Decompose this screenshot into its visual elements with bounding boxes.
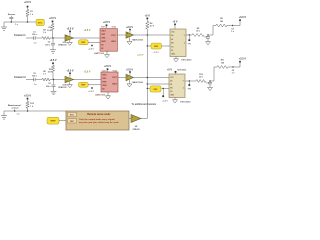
wire box3 to U4	[162, 45, 171, 47]
svg-text:100: 100	[221, 62, 224, 64]
svg-text:Z: Z	[184, 43, 185, 45]
wire U7 out	[134, 77, 170, 79]
wire rise ch2	[210, 67, 217, 81]
wire to opamp	[50, 37, 66, 39]
svg-text:+2.5 V: +2.5 V	[49, 59, 56, 62]
power +2.5V small pad ch1	[91, 45, 93, 47]
junction out pad ch2	[189, 80, 190, 81]
svg-text:VDD1: VDD1	[101, 26, 106, 28]
svg-text:100: 100	[220, 21, 223, 23]
capacitor C1 series	[33, 36, 35, 40]
svg-text:VDD1: VDD1	[101, 31, 106, 33]
svg-text:+3.3 V: +3.3 V	[239, 16, 247, 19]
svg-text:S0: S0	[170, 91, 172, 93]
svg-text:sensor: sensor	[11, 108, 18, 110]
svg-text:+3.3 V: +3.3 V	[239, 57, 247, 60]
wire U2 to U3	[117, 34, 126, 36]
svg-text:S0: S0	[171, 46, 173, 48]
svg-text:VREF: VREF	[50, 121, 56, 123]
svg-text:GND1: GND1	[102, 85, 107, 87]
svg-text:+2.5 V: +2.5 V	[104, 65, 111, 68]
svg-text:OPA2333: OPA2333	[58, 43, 66, 46]
svg-text:A1: A1	[170, 83, 172, 86]
wire refnet to U6	[88, 84, 101, 86]
isolation amplifier U2 AMC1100	[100, 29, 117, 52]
junction output ch2	[232, 66, 233, 67]
svg-text:+2.5 V: +2.5 V	[88, 91, 94, 93]
wire box5 to U8	[162, 88, 170, 90]
svg-text:74HC4052: 74HC4052	[181, 59, 192, 62]
wire rise ch1	[208, 26, 216, 36]
junction	[27, 21, 28, 22]
ground earth C6	[51, 90, 57, 92]
ground U7	[129, 80, 131, 84]
ground opamp2	[69, 82, 71, 85]
node label highlight VREF	[47, 117, 59, 124]
svg-text:74AHC1G04: 74AHC1G04	[132, 81, 144, 84]
ground U3	[129, 37, 131, 41]
svg-text:+2.5 V: +2.5 V	[153, 52, 159, 54]
svg-text:AMC1100: AMC1100	[95, 93, 106, 96]
svg-text:100 n: 100 n	[45, 44, 51, 46]
op-amp U1B	[65, 76, 74, 82]
wire refnet to U2	[88, 41, 100, 43]
svg-text:100 n: 100 n	[32, 34, 38, 36]
svg-text:+2.5 V: +2.5 V	[88, 48, 94, 50]
wire box6 to note	[59, 120, 66, 122]
power +2.5V ref pad	[163, 88, 164, 89]
capacitor CS1 sensor element	[10, 16, 12, 17]
resistor R12	[26, 101, 29, 108]
ground U8	[174, 98, 176, 100]
svg-text:VDD1: VDD1	[102, 70, 107, 72]
svg-text:+5 V: +5 V	[167, 68, 172, 71]
power +2.5V small pad ch2	[91, 87, 93, 89]
svg-text:+2.5 V: +2.5 V	[24, 94, 31, 97]
wire U8 out	[185, 80, 196, 82]
junction output ch1	[232, 25, 233, 26]
svg-text:C6: C6	[48, 83, 50, 85]
ground C3	[206, 42, 211, 45]
svg-text:R3: R3	[49, 27, 51, 29]
capacitor C2 to ground	[52, 38, 54, 43]
ground U6	[107, 92, 109, 96]
svg-text:74AHC1G04: 74AHC1G04	[132, 38, 144, 41]
resistor R8 10k	[192, 34, 204, 37]
svg-text:+2.5 V: +2.5 V	[84, 30, 91, 32]
svg-text:To additional channels: To additional channels	[132, 103, 157, 106]
capacitor C5 series	[33, 78, 35, 82]
svg-text:+2.5 V: +2.5 V	[49, 17, 56, 20]
wire opamp1 out	[74, 37, 101, 39]
resistor R2 series	[42, 37, 50, 40]
resistor R4 pullup 4.7k	[146, 22, 149, 30]
svg-text:R12: R12	[30, 103, 34, 105]
wire U6 to U7	[118, 77, 126, 79]
svg-text:+2.5 V: +2.5 V	[66, 70, 73, 73]
multiplexer U8 74HC4052	[169, 74, 185, 98]
svg-text:Sensor: Sensor	[8, 14, 16, 16]
node label highlight ch1	[79, 40, 89, 45]
svg-text:74HC4052: 74HC4052	[177, 69, 186, 72]
node label highlight SCL	[147, 45, 151, 47]
ground U4	[175, 57, 177, 59]
svg-text:AMC1100: AMC1100	[94, 52, 105, 55]
op-amp U7 buffer	[126, 74, 134, 80]
wire U3 out	[134, 34, 171, 36]
ground earth C2	[50, 49, 56, 51]
wire U4 out	[186, 34, 192, 36]
svg-text:EXC: EXC	[38, 22, 43, 24]
svg-text:+5 V: +5 V	[145, 14, 150, 17]
svg-text:A0: A0	[170, 79, 172, 82]
junction	[11, 21, 12, 22]
junction pullup ch1	[147, 34, 148, 35]
svg-text:GND2: GND2	[111, 41, 116, 43]
wire excitation bus	[4, 21, 36, 23]
isolation amplifier U6 AMC1100	[101, 72, 118, 92]
ground U2	[106, 51, 108, 55]
resistor R5 100	[216, 24, 227, 27]
svg-text:A0: A0	[171, 34, 173, 37]
capacitor C6 to ground	[53, 80, 55, 85]
svg-text:TP2: TP2	[188, 88, 192, 90]
svg-text:VDD1: VDD1	[102, 75, 107, 77]
ground opamp1	[69, 40, 71, 42]
svg-text:100 n: 100 n	[46, 86, 52, 88]
svg-text:S1: S1	[171, 50, 173, 52]
svg-text:+2.5 V: +2.5 V	[84, 72, 91, 74]
svg-text:+2.5 V: +2.5 V	[103, 21, 110, 24]
wire bias bus	[14, 109, 16, 111]
node label highlight SDA	[147, 88, 151, 90]
svg-text:GND1: GND1	[101, 41, 106, 43]
resistor R7 pullup	[51, 65, 54, 72]
svg-text:100 n: 100 n	[32, 76, 38, 78]
node ch1 filter	[207, 34, 208, 35]
svg-text:EXC: EXC	[70, 114, 75, 116]
junction	[14, 110, 15, 111]
svg-text:+2.5 V: +2.5 V	[162, 101, 168, 103]
power +3.3V out ch2	[233, 63, 240, 67]
note box sensor wiring	[66, 111, 129, 130]
svg-text:VDD2: VDD2	[112, 70, 117, 72]
wire ref to U8 mid pin	[147, 83, 148, 84]
resistor R6 series	[42, 78, 50, 81]
node label VEXC	[36, 19, 44, 25]
op-amp U9 reference buffer	[129, 118, 131, 120]
ground earth bias	[3, 111, 5, 116]
wire opamp2 out	[74, 79, 102, 81]
svg-text:OPA333: OPA333	[132, 128, 139, 131]
svg-text:+5 V: +5 V	[172, 20, 177, 23]
svg-text:Z: Z	[183, 87, 184, 89]
svg-text:74HC4052: 74HC4052	[180, 101, 191, 104]
op-amp U1A	[65, 35, 74, 41]
svg-text:REF: REF	[81, 85, 86, 87]
svg-text:Connect 2: Connect 2	[14, 76, 26, 79]
svg-text:+2.5 V: +2.5 V	[137, 55, 144, 57]
svg-text:+2.5 V: +2.5 V	[66, 28, 73, 31]
junction out pad ch1	[189, 34, 190, 35]
power +3.3V out ch1	[233, 21, 241, 25]
svg-text:Remote sense node:: Remote sense node:	[87, 113, 111, 116]
wire to opamp2	[50, 79, 66, 81]
multiplexer U4 74HC4052	[170, 29, 186, 57]
svg-text:REF: REF	[81, 42, 86, 44]
junction ref ch1	[147, 45, 148, 46]
node label highlight ch2	[79, 82, 89, 87]
node ch2 filter	[209, 80, 210, 81]
svg-text:VDD2: VDD2	[111, 26, 116, 28]
svg-text:R7: R7	[49, 69, 51, 71]
resistor R11 100	[217, 66, 228, 69]
resistor R10 10k	[196, 80, 206, 83]
op-amp U3 buffer	[126, 32, 134, 38]
svg-text:C2: C2	[48, 42, 50, 44]
resistor R3 pullup	[51, 24, 54, 31]
svg-text:any wire pair plus shield may: any wire pair plus shield may be used.	[79, 122, 119, 124]
junction ref ch2 signal	[147, 77, 148, 78]
wire ch1 input	[26, 37, 34, 39]
svg-text:OPA2333: OPA2333	[58, 86, 66, 89]
node ch2 junction	[53, 79, 54, 80]
svg-text:REF: REF	[154, 46, 159, 48]
svg-text:Connect 1: Connect 1	[14, 34, 26, 37]
ground earth left	[3, 22, 5, 27]
svg-text:Bias/neutral: Bias/neutral	[8, 104, 21, 107]
junction	[27, 110, 28, 111]
svg-text:GND2: GND2	[112, 84, 117, 86]
resistor R1	[26, 10, 29, 17]
node ch1 junction	[52, 37, 53, 38]
wire reference vertical	[146, 35, 148, 119]
svg-text:+2.5 V: +2.5 V	[126, 26, 133, 29]
svg-text:Only the output leads carry si: Only the output leads carry signal;	[79, 118, 115, 121]
svg-text:+2.5 V: +2.5 V	[126, 68, 133, 71]
svg-text:REF: REF	[153, 89, 158, 91]
wire U9 out to ref vertical	[141, 118, 147, 120]
wire ch2 input	[26, 79, 34, 81]
svg-text:+2.5 V: +2.5 V	[24, 1, 31, 4]
svg-text:A1: A1	[171, 38, 173, 41]
junction ref ch2	[147, 88, 148, 89]
ground C7	[208, 87, 213, 90]
